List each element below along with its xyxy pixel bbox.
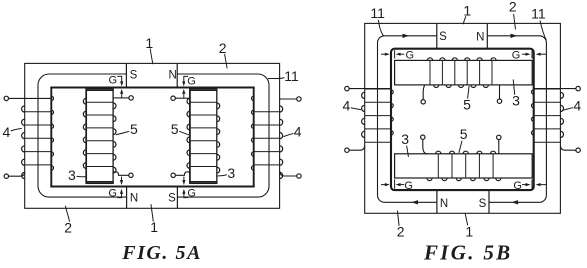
leader 1 bottom	[151, 204, 153, 221]
wire coil4-right bottom lead	[560, 145, 576, 150]
svg-text:2: 2	[397, 224, 405, 240]
armature core 3 left (with coil 5)	[86, 89, 113, 184]
magnet 1 top (white body)	[437, 23, 488, 48]
leader 5 right	[179, 131, 190, 135]
svg-text:G: G	[513, 180, 522, 192]
leader 4 right	[563, 108, 573, 110]
magnet 1 bottom right edge	[176, 187, 178, 209]
terminal coil5-left bottom	[129, 173, 133, 177]
wire coil5-right top lead	[175, 97, 190, 99]
gap G top-left arrows	[381, 53, 385, 55]
terminal coil4-left bottom	[4, 174, 8, 178]
magnet 1 bottom left edge	[126, 187, 128, 209]
terminal coil4-right bottom	[576, 148, 580, 152]
leader 3 bottom	[407, 146, 409, 157]
svg-text:G: G	[406, 49, 415, 61]
flux arrow bottom-left	[412, 200, 419, 204]
terminal coil4-right top	[576, 86, 580, 90]
svg-text:3: 3	[227, 165, 235, 181]
flux arrow bottom-right	[512, 200, 518, 204]
svg-text:G: G	[108, 188, 117, 200]
svg-text:N: N	[130, 193, 138, 205]
coil 4 right (on right limb)	[534, 88, 561, 90]
armature core 3 right (with coil 5)	[190, 89, 217, 184]
leader 3 left	[76, 175, 86, 178]
svg-text:4: 4	[294, 123, 302, 139]
svg-text:S: S	[479, 198, 487, 210]
FIG.5A group	[3, 35, 302, 264]
magnet 1 bottom (white body)	[437, 190, 489, 213]
svg-text:5: 5	[171, 121, 179, 137]
core ring inner edge left	[50, 88, 52, 187]
terminal coil4-left top	[4, 96, 8, 100]
svg-text:3: 3	[68, 167, 76, 183]
terminal coil4-left top	[345, 86, 349, 90]
leader 11	[268, 78, 284, 79]
svg-text:3: 3	[512, 92, 520, 108]
wire coil5-bottom left lead	[423, 139, 428, 153]
leader 5 bottom	[459, 141, 462, 153]
armature core 3 top (with coil 5)	[395, 60, 533, 85]
gap G bottom-right arrows	[522, 184, 526, 186]
magnet 1 bottom left edge	[436, 190, 438, 213]
wire coil4-right bottom lead	[280, 171, 297, 176]
terminal coil5-left top	[129, 96, 133, 100]
svg-text:5: 5	[460, 126, 468, 142]
svg-text:S: S	[439, 31, 447, 43]
leader 4 left	[351, 108, 361, 110]
leader 3 top	[513, 79, 515, 94]
leader 5 top	[468, 86, 470, 99]
gap G top-right arrows	[184, 76, 188, 81]
wire coil5-left bottom lead	[113, 172, 129, 175]
svg-text:2: 2	[509, 0, 517, 15]
coil 4 right (on right limb)	[254, 111, 280, 113]
leader 2 bottom	[397, 211, 399, 226]
svg-text:11: 11	[531, 6, 546, 22]
armature core 3 bottom (with coil 5)	[395, 154, 533, 178]
svg-text:11: 11	[370, 5, 385, 21]
wire coil4-right top lead	[280, 98, 297, 100]
terminal coil4-left bottom	[345, 148, 349, 152]
magnet 1 top left edge	[125, 63, 127, 87]
leader 1 top	[150, 49, 153, 65]
svg-text:FIG. 5A: FIG. 5A	[121, 242, 202, 263]
gap G bottom-left arrows	[381, 184, 385, 186]
gap G top-right arrows	[522, 53, 526, 55]
svg-text:5: 5	[463, 96, 471, 112]
terminal coil5-bottom right	[497, 135, 501, 139]
FIG.5B group	[343, 0, 582, 264]
terminal coil5-top left	[421, 100, 425, 104]
magnet 1 top right edge	[176, 63, 178, 87]
wire coil5-top left lead	[423, 85, 425, 100]
outer case	[25, 63, 280, 208]
svg-text:5: 5	[130, 121, 138, 137]
wire coil5-left top lead	[113, 97, 129, 99]
svg-text:1: 1	[145, 35, 153, 51]
magnet 1 top left edge	[436, 23, 438, 48]
svg-text:S: S	[168, 193, 176, 205]
flux arrow top-right	[511, 34, 518, 38]
svg-text:N: N	[476, 31, 484, 43]
terminal coil5-bottom left	[421, 135, 425, 139]
leader 4 left	[11, 128, 22, 131]
leader 11 top-left	[378, 20, 383, 36]
svg-text:1: 1	[465, 223, 473, 239]
gap G top-left arrows	[117, 76, 121, 81]
leader 2 bottom	[65, 206, 69, 222]
svg-text:N: N	[168, 70, 176, 82]
svg-text:3: 3	[401, 131, 409, 147]
svg-text:S: S	[130, 70, 138, 82]
terminal coil5-right bottom	[171, 173, 175, 177]
coil 4 left (on left limb)	[365, 88, 391, 90]
wire coil4-left bottom lead	[9, 172, 25, 176]
terminal coil5-top right	[497, 99, 501, 103]
wire coil5-top right lead	[499, 85, 501, 99]
svg-text:4: 4	[3, 124, 11, 140]
leader 2 top	[225, 54, 228, 69]
wire coil4-right top lead	[534, 88, 576, 90]
svg-text:1: 1	[463, 2, 471, 18]
core ring inner edge bottom bar	[50, 186, 254, 188]
gap G bottom-left arrows	[121, 177, 123, 180]
wire coil4-left top lead	[349, 88, 391, 90]
leader 2 top	[514, 14, 516, 29]
terminal coil5-right top	[171, 96, 175, 100]
magnet 1 bottom right edge	[488, 190, 490, 213]
leader 3 right	[217, 175, 227, 177]
core ring inner edge right	[253, 88, 255, 187]
coil 4 left (on left limb)	[25, 111, 52, 113]
leader 1 bottom	[465, 213, 467, 225]
magnet 1 top right edge	[486, 23, 488, 48]
leader 5 left	[116, 131, 130, 134]
terminal coil4-right top	[297, 97, 301, 101]
svg-text:N: N	[440, 198, 448, 210]
svg-text:2: 2	[64, 220, 72, 236]
leader 4 right	[283, 133, 293, 136]
wire coil4-left top lead	[9, 97, 52, 99]
core ring 2 (outer edge, rounded)	[38, 74, 269, 197]
wire coil5-right bottom lead	[175, 172, 190, 175]
svg-text:G: G	[512, 49, 521, 61]
svg-text:G: G	[187, 75, 196, 87]
core ring 2 (outer edge with flux path)	[378, 36, 547, 203]
wire coil4-left bottom lead	[349, 145, 365, 150]
svg-text:G: G	[109, 75, 118, 87]
svg-text:11: 11	[284, 68, 299, 84]
outer case	[365, 23, 561, 213]
svg-text:FIG. 5B: FIG. 5B	[423, 240, 512, 263]
svg-text:4: 4	[573, 98, 581, 114]
svg-text:G: G	[404, 180, 413, 192]
core ring inner edge top bar	[50, 87, 254, 89]
terminal coil4-right bottom	[297, 174, 301, 178]
wire coil5-bottom right lead	[498, 140, 500, 154]
magnet 1 top (white body)	[126, 63, 177, 87]
leader 11 top-right	[540, 21, 546, 40]
svg-text:4: 4	[343, 98, 351, 114]
svg-text:1: 1	[150, 219, 158, 235]
core ring inner edge (thick rounded)	[391, 49, 534, 190]
svg-text:G: G	[187, 188, 196, 200]
svg-text:2: 2	[219, 40, 227, 56]
leader 1 top	[463, 16, 466, 24]
magnet 1 bottom (white body)	[127, 187, 178, 209]
flux arrow top-left	[403, 34, 410, 38]
gap G bottom-right arrows	[183, 177, 185, 180]
